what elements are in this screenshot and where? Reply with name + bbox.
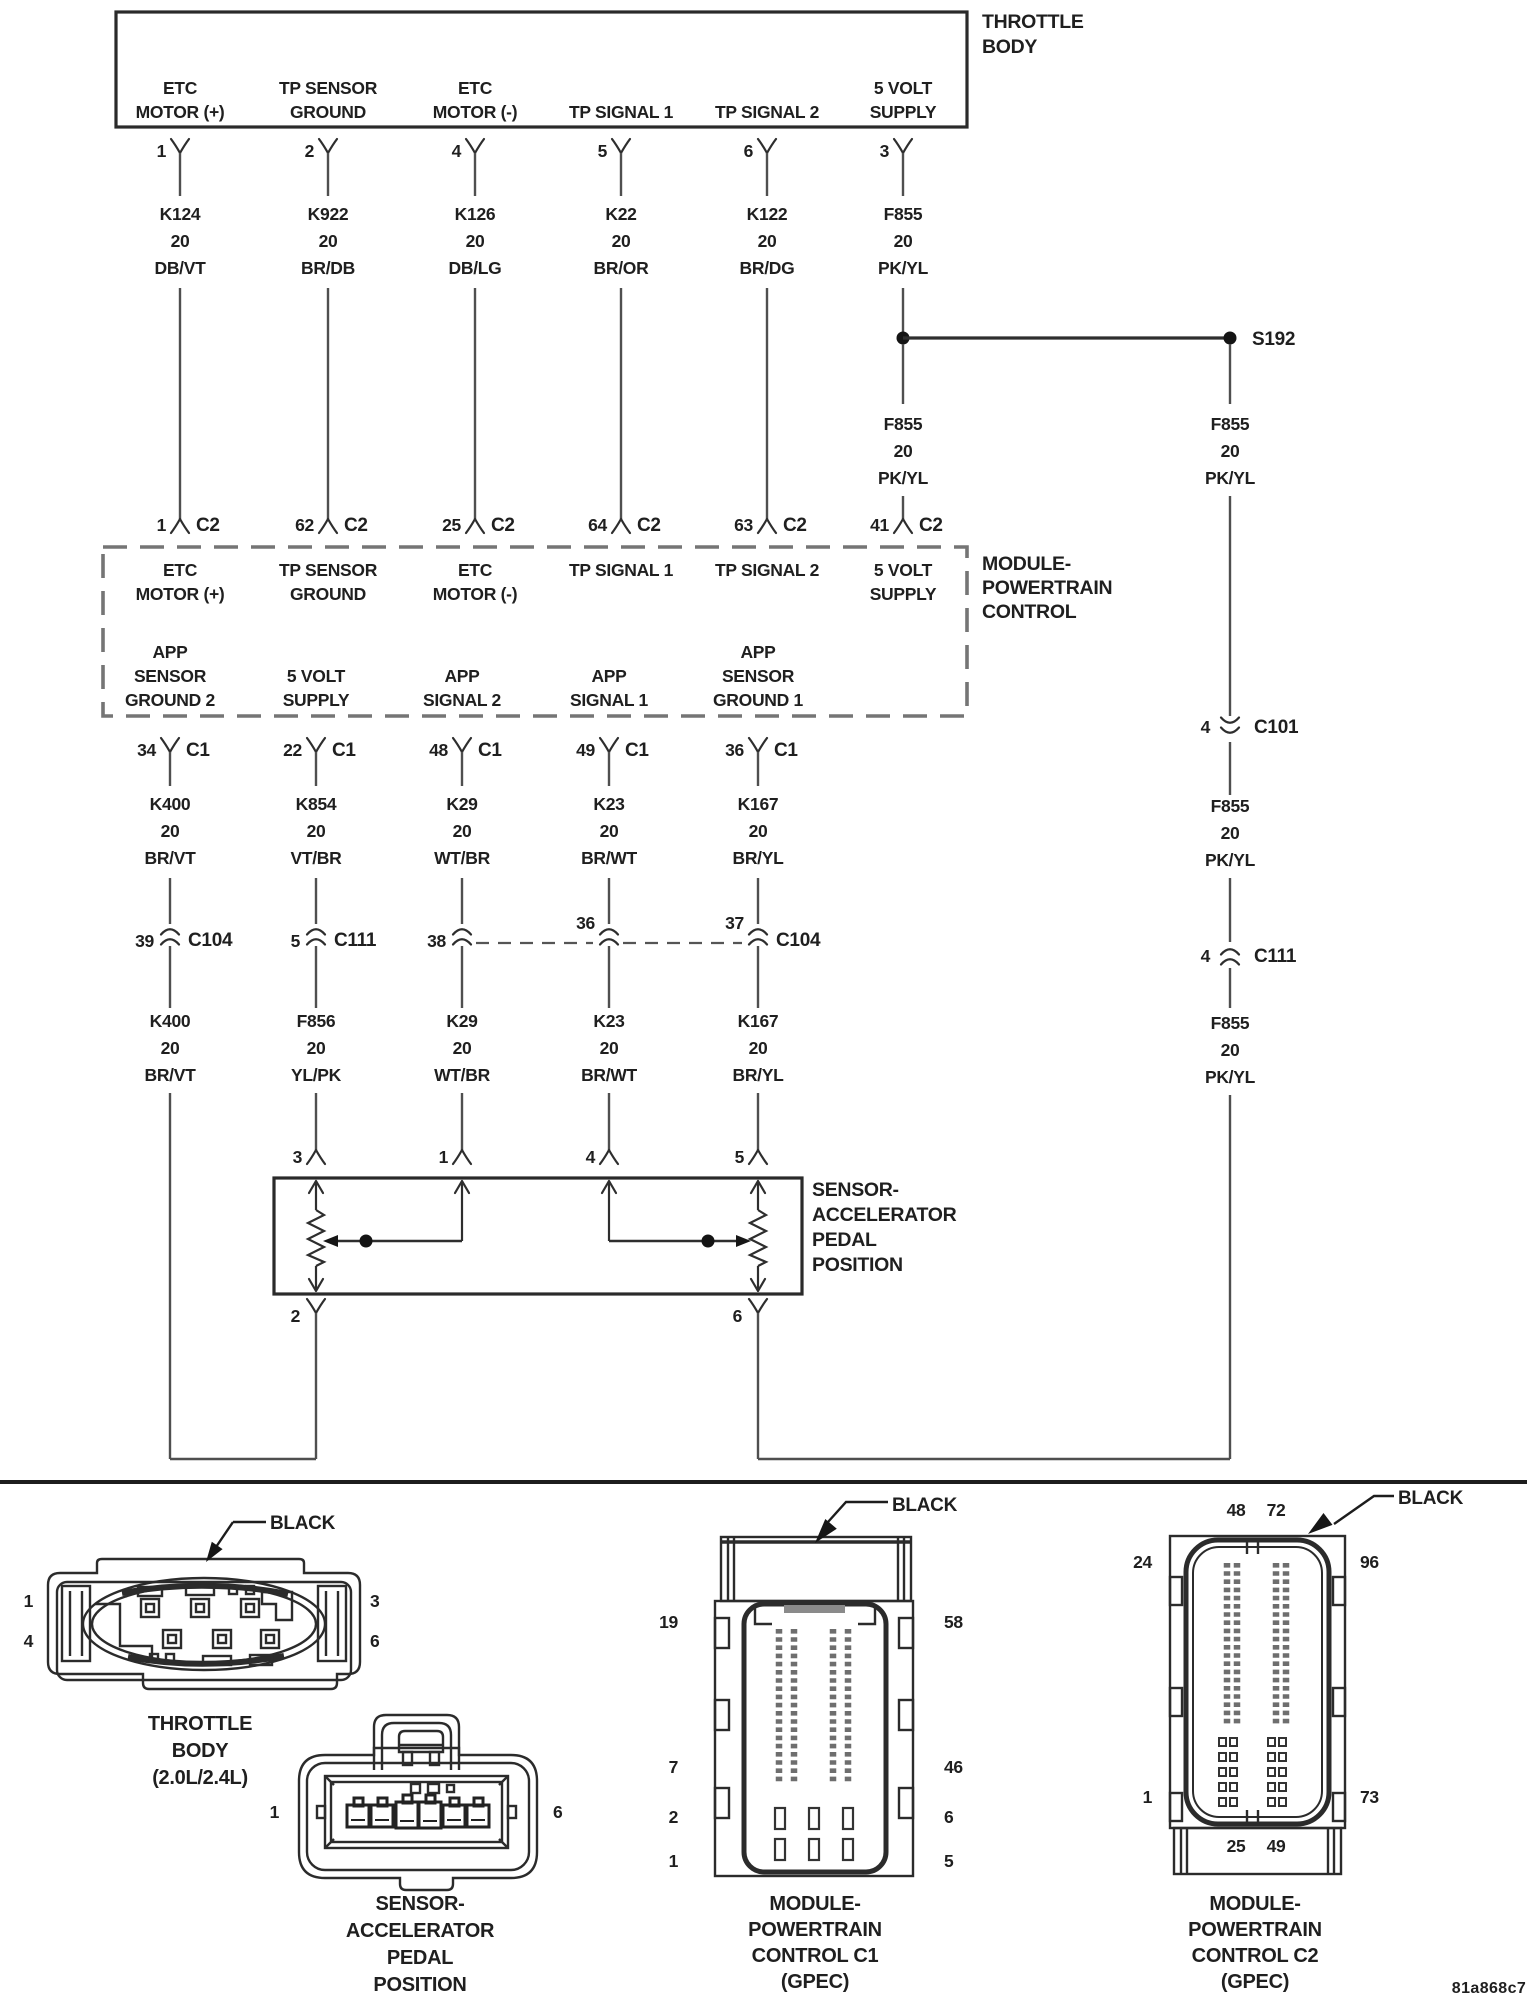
throttle body pin 3 connector fork [880, 139, 912, 161]
svg-text:VT/BR: VT/BR [290, 848, 342, 868]
svg-text:BR/WT: BR/WT [581, 848, 637, 868]
svg-text:49: 49 [1267, 1836, 1286, 1856]
svg-text:20: 20 [1221, 441, 1240, 461]
svg-text:37: 37 [725, 913, 744, 933]
wire from pedal pin 6 down [757, 1313, 759, 1459]
svg-text:1: 1 [439, 1147, 449, 1167]
svg-text:BR/VT: BR/VT [144, 1065, 196, 1085]
wire label K922 20 BR/DB [301, 204, 355, 278]
module output label APP SENSOR GROUND 1 [713, 642, 804, 710]
wire K122 segment to C2 pin 63 [766, 288, 768, 519]
svg-text:20: 20 [1221, 1040, 1240, 1060]
wire label F856 20 YL/PK (lower) [291, 1011, 342, 1085]
wire K124 upper stub (pin 1) [179, 153, 181, 196]
svg-text:1: 1 [1143, 1787, 1153, 1807]
svg-text:5 VOLT: 5 VOLT [874, 78, 933, 98]
connector C101 pin 4 (chevrons down) [1201, 717, 1299, 738]
wire label K124 20 DB/VT [154, 204, 206, 278]
potentiometer APP sensor 1 (left) terminal arrow pin 3 [309, 1181, 323, 1193]
svg-text:7: 7 [669, 1757, 678, 1777]
svg-text:F856: F856 [297, 1011, 336, 1031]
svg-text:72: 72 [1267, 1500, 1286, 1520]
svg-text:5: 5 [944, 1851, 954, 1871]
svg-text:C2: C2 [344, 515, 368, 536]
caption SENSOR-ACCELERATOR PEDAL POSITION [346, 1893, 495, 1996]
svg-text:C104: C104 [188, 930, 233, 951]
svg-text:C104: C104 [776, 930, 821, 951]
svg-text:PEDAL: PEDAL [812, 1229, 877, 1251]
svg-text:2: 2 [291, 1306, 301, 1326]
svg-text:34: 34 [137, 740, 156, 760]
C2 lower pin dot clusters [1219, 1738, 1286, 1806]
svg-text:25: 25 [1227, 1836, 1246, 1856]
module input label ETC MOTOR (+) [136, 560, 225, 604]
svg-text:PK/YL: PK/YL [878, 258, 929, 278]
svg-text:(GPEC): (GPEC) [781, 1971, 849, 1993]
wire label K22 20 BR/OR [594, 204, 650, 278]
svg-text:38: 38 [427, 931, 446, 951]
C2 connector cavity numbers [1133, 1500, 1379, 1856]
svg-text:APP: APP [740, 642, 776, 662]
wire label K400 20 BR/VT (lower) [144, 1011, 196, 1085]
svg-text:MODULE-: MODULE- [769, 1893, 860, 1915]
pedal sensor pin 6 fork [733, 1299, 767, 1326]
connector C2 pin 25 fork [442, 515, 515, 536]
svg-text:ETC: ETC [458, 560, 493, 580]
pedal sensor pin 4 fork [586, 1147, 618, 1167]
wire K22 upper stub (pin 5) [620, 153, 622, 196]
wire K167 segment to inline connector [757, 878, 759, 924]
svg-text:(GPEC): (GPEC) [1221, 1971, 1289, 1993]
wire K922 upper stub (pin 2) [327, 153, 329, 196]
svg-text:BR/OR: BR/OR [594, 258, 650, 278]
svg-text:GROUND: GROUND [290, 584, 366, 604]
svg-text:20: 20 [749, 821, 768, 841]
svg-text:20: 20 [319, 231, 338, 251]
svg-text:BLACK: BLACK [1398, 1488, 1464, 1509]
svg-text:6: 6 [733, 1306, 743, 1326]
inline connector C111 pin 5 (chevrons up) [291, 929, 377, 951]
svg-text:20: 20 [307, 1038, 326, 1058]
wire label K23 20 BR/WT (lower) [581, 1011, 637, 1085]
svg-text:C1: C1 [186, 740, 210, 761]
wire label K854 20 VT/BR (upper) [290, 794, 342, 868]
svg-text:6: 6 [944, 1807, 954, 1827]
svg-text:THROTTLE: THROTTLE [148, 1713, 252, 1735]
resistor lower lead with arrow into pin 6 [757, 1266, 759, 1291]
svg-text:25: 25 [442, 515, 461, 535]
wire K124 segment to C2 pin 1 [179, 288, 181, 519]
label BLACK (C1 connector) with arrow [815, 1495, 958, 1543]
wire label K29 20 WT/BR (upper) [434, 794, 491, 868]
svg-text:4: 4 [1201, 946, 1211, 966]
wire K400 segment below C1 [169, 752, 171, 786]
svg-text:F855: F855 [1211, 796, 1250, 816]
component box: SENSOR-ACCELERATOR PEDAL POSITION [274, 1178, 802, 1294]
wire label K122 20 BR/DG [740, 204, 795, 278]
svg-text:ETC: ETC [458, 78, 493, 98]
svg-text:6: 6 [744, 141, 754, 161]
svg-text:(2.0L/2.4L): (2.0L/2.4L) [152, 1767, 248, 1789]
svg-text:MOTOR (-): MOTOR (-) [433, 584, 517, 604]
svg-text:ETC: ETC [163, 78, 198, 98]
svg-text:39: 39 [135, 931, 154, 951]
svg-text:K854: K854 [296, 794, 337, 814]
C1 connector cavity numbers [659, 1612, 963, 1871]
inline connector C104 pin 39 (chevrons up) [135, 929, 233, 951]
svg-text:K167: K167 [738, 794, 779, 814]
wire F855 segment to C111 [1229, 878, 1231, 942]
wire F855 upper stub (pin 3) [902, 153, 904, 196]
svg-text:TP SENSOR: TP SENSOR [279, 78, 378, 98]
svg-text:49: 49 [576, 740, 595, 760]
resistor element APP sensor 2 (right) [750, 1210, 766, 1266]
svg-text:K167: K167 [738, 1011, 779, 1031]
wire F855 segment to splice S192 [902, 288, 904, 332]
svg-text:20: 20 [894, 231, 913, 251]
wire F855 below junction to C2 pin 41 [902, 344, 904, 404]
throttle body terminal label 5 VOLT SUPPLY [870, 78, 937, 122]
svg-text:41: 41 [870, 515, 889, 535]
svg-text:6: 6 [553, 1802, 563, 1822]
inline connector C104 pin 37 (chevrons up) [725, 913, 821, 951]
throttle body pin 5 connector fork [598, 139, 630, 161]
junction dot at F855 / S192 tie [897, 332, 910, 345]
svg-text:GROUND 2: GROUND 2 [125, 690, 216, 710]
wire K29 segment to pedal pin 1 [461, 1093, 463, 1150]
wire K23 segment below C1 [608, 752, 610, 786]
svg-text:ACCELERATOR: ACCELERATOR [812, 1204, 957, 1226]
svg-text:TP SENSOR: TP SENSOR [279, 560, 378, 580]
svg-text:PK/YL: PK/YL [1205, 468, 1256, 488]
svg-text:TP SIGNAL 1: TP SIGNAL 1 [569, 560, 674, 580]
wire label K23 20 BR/WT (upper) [581, 794, 637, 868]
svg-text:C1: C1 [478, 740, 502, 761]
label SENSOR-ACCELERATOR PEDAL POSITION title [812, 1179, 957, 1276]
svg-text:DB/LG: DB/LG [449, 258, 502, 278]
wire K122 upper stub (pin 6) [766, 153, 768, 196]
svg-text:SUPPLY: SUPPLY [870, 584, 937, 604]
svg-text:C2: C2 [919, 515, 943, 536]
wire K23 segment to pedal pin 4 [608, 1093, 610, 1150]
module output label APP SENSOR GROUND 2 [125, 642, 216, 710]
svg-text:TP SIGNAL 2: TP SIGNAL 2 [715, 102, 820, 122]
svg-text:POWERTRAIN: POWERTRAIN [982, 577, 1112, 599]
label THROTTLE BODY title [982, 11, 1084, 58]
inline connector C104 pin 38 (chevrons up) [427, 929, 471, 951]
junction dot on right wiper [702, 1235, 715, 1248]
wire K29 segment below C1 [461, 752, 463, 786]
svg-text:SIGNAL 2: SIGNAL 2 [423, 690, 502, 710]
wire label K126 20 DB/LG [449, 204, 502, 278]
connector C2 pin 41 fork [870, 515, 943, 536]
svg-text:BLACK: BLACK [892, 1495, 958, 1516]
svg-text:ETC: ETC [163, 560, 198, 580]
resistor lower lead with arrow into pin 2 [315, 1266, 317, 1291]
svg-text:4: 4 [1201, 717, 1211, 737]
svg-text:20: 20 [894, 441, 913, 461]
pedal connector cavity numbers [270, 1802, 563, 1822]
svg-text:48: 48 [1227, 1500, 1246, 1520]
svg-text:22: 22 [283, 740, 302, 760]
svg-text:K23: K23 [593, 794, 625, 814]
connector drawing: accelerator pedal position connector face [299, 1715, 537, 1890]
svg-text:20: 20 [466, 231, 485, 251]
svg-text:1: 1 [157, 515, 167, 535]
C1 lower pin cavities [775, 1808, 853, 1860]
connector C1 pin 49 fork [576, 738, 649, 761]
svg-text:20: 20 [749, 1038, 768, 1058]
connector C1 pin 34 fork [137, 738, 210, 761]
wire K167 segment below C1 [757, 752, 759, 786]
throttle body terminal label TP SIGNAL 1 [569, 102, 674, 122]
wire K23 segment below inline connector [608, 946, 610, 1008]
module input label TP SIGNAL 1 [569, 560, 674, 580]
wire F855 long segment down to pedal sensor return [1229, 1095, 1231, 1459]
svg-text:62: 62 [295, 515, 314, 535]
svg-text:GROUND: GROUND [290, 102, 366, 122]
svg-text:K122: K122 [747, 204, 788, 224]
svg-text:20: 20 [453, 821, 472, 841]
svg-text:63: 63 [734, 515, 753, 535]
pedal connector pin cavities [347, 1795, 489, 1828]
svg-text:6: 6 [370, 1631, 380, 1651]
wire label K167 20 BR/YL (upper) [732, 794, 784, 868]
svg-text:MODULE-: MODULE- [982, 553, 1071, 575]
svg-text:C2: C2 [196, 515, 220, 536]
svg-text:BR/DB: BR/DB [301, 258, 355, 278]
splice S192 dot [1224, 332, 1237, 345]
wire elbow pedal pin 6 to F855 branch (5V return path) [758, 1458, 1230, 1460]
svg-text:PK/YL: PK/YL [1205, 850, 1256, 870]
svg-text:GROUND 1: GROUND 1 [713, 690, 804, 710]
svg-text:SUPPLY: SUPPLY [283, 690, 350, 710]
svg-text:BODY: BODY [982, 36, 1037, 58]
svg-text:TP SIGNAL 1: TP SIGNAL 1 [569, 102, 674, 122]
dashed tie line linking C104 connector pins 38-36-37 [476, 942, 593, 944]
wire label F855 20 PK/YL (below C111) [1205, 1013, 1256, 1087]
throttle body terminal label TP SIGNAL 2 [715, 102, 820, 122]
wire K400 long segment down (to pedal return) [169, 1093, 171, 1459]
wire label F855 20 PK/YL [878, 204, 929, 278]
svg-text:K29: K29 [446, 1011, 478, 1031]
svg-text:ACCELERATOR: ACCELERATOR [346, 1920, 495, 1942]
svg-text:19: 19 [659, 1612, 678, 1632]
module input label 5 VOLT SUPPLY [870, 560, 937, 604]
svg-text:5: 5 [291, 931, 301, 951]
svg-text:YL/PK: YL/PK [291, 1065, 342, 1085]
wire K126 upper stub (pin 4) [474, 153, 476, 196]
svg-text:DB/VT: DB/VT [154, 258, 206, 278]
svg-text:THROTTLE: THROTTLE [982, 11, 1084, 33]
throttle body terminal label TP SENSOR GROUND [279, 78, 378, 122]
svg-text:C101: C101 [1254, 717, 1299, 738]
junction dot on left wiper [360, 1235, 373, 1248]
wire F856 segment to pedal pin 3 [315, 1093, 317, 1150]
svg-text:C2: C2 [637, 515, 661, 536]
connector C2 pin 63 fork [734, 515, 807, 536]
svg-text:C2: C2 [491, 515, 515, 536]
module input label TP SENSOR GROUND [279, 560, 378, 604]
svg-text:PK/YL: PK/YL [878, 468, 929, 488]
svg-text:BODY: BODY [172, 1740, 230, 1762]
svg-text:SENSOR: SENSOR [134, 666, 207, 686]
svg-text:5: 5 [735, 1147, 745, 1167]
svg-text:20: 20 [600, 821, 619, 841]
C2 pin column strips [1227, 1563, 1286, 1726]
wire label K400 20 BR/VT (upper) [144, 794, 196, 868]
svg-text:96: 96 [1360, 1552, 1379, 1572]
component box: THROTTLE BODY [116, 12, 967, 127]
wire K29 segment to inline connector [461, 878, 463, 924]
svg-text:CONTROL C1: CONTROL C1 [752, 1945, 879, 1967]
svg-text:3: 3 [880, 141, 890, 161]
wire F855 below C101 [1229, 742, 1231, 795]
svg-text:20: 20 [171, 231, 190, 251]
svg-text:POWERTRAIN: POWERTRAIN [1188, 1919, 1322, 1941]
svg-text:POSITION: POSITION [812, 1254, 903, 1276]
svg-text:K23: K23 [593, 1011, 625, 1031]
svg-text:CONTROL: CONTROL [982, 601, 1077, 623]
svg-text:BR/YL: BR/YL [732, 848, 784, 868]
wire F855 from S192 down [1229, 344, 1231, 404]
svg-text:F855: F855 [1211, 1013, 1250, 1033]
connector C2 pin 1 fork [157, 515, 220, 536]
inline connector C104 pin 36 (chevrons up) [576, 913, 618, 945]
svg-text:1: 1 [669, 1851, 679, 1871]
svg-text:5: 5 [598, 141, 608, 161]
module output label APP SIGNAL 2 [423, 666, 502, 710]
svg-text:SENSOR-: SENSOR- [375, 1893, 464, 1915]
svg-text:SENSOR: SENSOR [722, 666, 795, 686]
svg-text:F855: F855 [884, 414, 923, 434]
svg-text:MOTOR (+): MOTOR (+) [136, 102, 225, 122]
connector drawing: module powertrain control C1 face [715, 1537, 913, 1876]
svg-text:SUPPLY: SUPPLY [870, 102, 937, 122]
svg-text:2: 2 [669, 1807, 679, 1827]
throttle body pin 2 connector fork [305, 139, 337, 161]
svg-text:K29: K29 [446, 794, 478, 814]
svg-text:1: 1 [24, 1591, 34, 1611]
wire K854 segment to inline connector [315, 878, 317, 924]
svg-text:4: 4 [24, 1631, 34, 1651]
svg-text:3: 3 [370, 1591, 380, 1611]
svg-text:POSITION: POSITION [373, 1974, 466, 1996]
connector C1 pin 36 fork [725, 738, 798, 761]
wire K23 segment to inline connector [608, 878, 610, 924]
connector drawing: module powertrain control C2 face [1170, 1536, 1345, 1874]
svg-text:20: 20 [1221, 823, 1240, 843]
throttle body terminal label ETC MOTOR (+) [136, 78, 225, 122]
wire label F855 20 PK/YL (between C101 and C111) [1205, 796, 1256, 870]
module output label APP SIGNAL 1 [570, 666, 649, 710]
svg-text:C1: C1 [332, 740, 356, 761]
svg-text:20: 20 [161, 1038, 180, 1058]
svg-text:MODULE-: MODULE- [1209, 1893, 1300, 1915]
wiper wire from pin 4 down [608, 1181, 610, 1241]
svg-text:20: 20 [612, 231, 631, 251]
connector C2 pin 64 fork [588, 515, 661, 536]
svg-text:MOTOR (-): MOTOR (-) [433, 102, 517, 122]
wire K126 segment to C2 pin 25 [474, 288, 476, 519]
pedal sensor pin 3 fork [293, 1147, 325, 1167]
svg-text:K22: K22 [605, 204, 637, 224]
svg-text:C2: C2 [783, 515, 807, 536]
wiper arm (right) with arrowhead into resistor [609, 1240, 744, 1242]
potentiometer APP sensor 2 (right) terminal arrow pin 5 [751, 1181, 765, 1193]
svg-text:PK/YL: PK/YL [1205, 1067, 1256, 1087]
svg-text:20: 20 [453, 1038, 472, 1058]
svg-text:20: 20 [600, 1038, 619, 1058]
wire label K29 20 WT/BR (lower) [434, 1011, 491, 1085]
svg-text:1: 1 [270, 1802, 280, 1822]
svg-text:S192: S192 [1252, 329, 1295, 350]
svg-text:WT/BR: WT/BR [434, 848, 491, 868]
pedal sensor pin 5 fork [735, 1147, 767, 1167]
svg-text:BR/VT: BR/VT [144, 848, 196, 868]
svg-text:CONTROL C2: CONTROL C2 [1192, 1945, 1319, 1967]
svg-text:APP: APP [591, 666, 627, 686]
module output label 5 VOLT SUPPLY [283, 666, 350, 710]
svg-text:20: 20 [161, 821, 180, 841]
svg-text:BR/DG: BR/DG [740, 258, 795, 278]
svg-text:MOTOR (+): MOTOR (+) [136, 584, 225, 604]
svg-text:APP: APP [444, 666, 480, 686]
wire K22 segment to C2 pin 64 [620, 288, 622, 519]
svg-text:4: 4 [586, 1147, 596, 1167]
wire K922 segment to C2 pin 62 [327, 288, 329, 519]
svg-text:20: 20 [758, 231, 777, 251]
wire K854 segment below C1 [315, 752, 317, 786]
svg-text:C1: C1 [625, 740, 649, 761]
label MODULE-POWERTRAIN CONTROL title [982, 553, 1112, 623]
svg-text:5 VOLT: 5 VOLT [287, 666, 346, 686]
wire label F855 20 PK/YL (left of S192) [878, 414, 929, 488]
svg-text:64: 64 [588, 515, 607, 535]
resistor element APP sensor 1 (left) [308, 1210, 324, 1266]
throttle body pin 1 connector fork [157, 139, 189, 161]
wire F855 short stub above C2 pin 41 [902, 496, 904, 519]
svg-text:3: 3 [293, 1147, 303, 1167]
module input label TP SIGNAL 2 [715, 560, 820, 580]
svg-text:1: 1 [157, 141, 167, 161]
wire K400 segment to inline connector [169, 878, 171, 924]
wire K167 segment below inline connector [757, 946, 759, 1008]
wiper wire from pin 1 down [461, 1181, 463, 1241]
module input label ETC MOTOR (-) [433, 560, 517, 604]
svg-text:20: 20 [307, 821, 326, 841]
pedal sensor pin 1 fork [439, 1147, 471, 1167]
wire horizontal tie to S192 [903, 336, 1230, 339]
svg-text:WT/BR: WT/BR [434, 1065, 491, 1085]
wire F856 segment below inline connector [315, 946, 317, 1008]
caption MODULE-POWERTRAIN CONTROL C2 (GPEC) [1188, 1893, 1322, 1993]
svg-text:K400: K400 [150, 794, 191, 814]
svg-text:C1: C1 [774, 740, 798, 761]
wire label K167 20 BR/YL (lower) [732, 1011, 784, 1085]
svg-text:36: 36 [725, 740, 744, 760]
svg-text:81a868c7: 81a868c7 [1452, 1980, 1526, 1997]
svg-text:5 VOLT: 5 VOLT [874, 560, 933, 580]
section separator line [0, 1480, 1527, 1484]
wiper arm (left) with arrowhead into resistor [330, 1240, 462, 1242]
wire elbow K400 to pedal pin 2 (return path) [170, 1458, 316, 1460]
svg-text:APP: APP [152, 642, 188, 662]
throttle body pin 4 connector fork [452, 139, 484, 161]
svg-text:73: 73 [1360, 1787, 1379, 1807]
connector C111 pin 4 (chevrons up) [1201, 946, 1297, 967]
svg-text:4: 4 [452, 141, 462, 161]
